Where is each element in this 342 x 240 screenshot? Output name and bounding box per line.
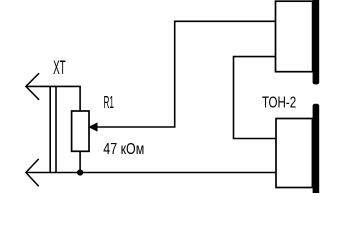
wire: bottom bus from XT pin 2 to BF2 terminal: [26, 172, 277, 174]
resistor R1 body: [72, 111, 89, 151]
wire: XT pin 1 to R1 top lead: [26, 86, 80, 111]
wire: BF1 terminal 2 to BF2 terminal 1: [234, 57, 277, 139]
connector XT contact line 2: [55, 86, 57, 172]
label R1: [104, 92, 115, 112]
headphone capsule BF1 magnet bar: [313, 0, 320, 84]
connector XT pin 1 arrow: [26, 73, 39, 100]
junction node (R1 bottom / bottom bus): [77, 169, 83, 175]
headphone capsule BF2 magnet bar: [313, 104, 320, 197]
headphone capsule BF1 body: [276, 1, 313, 72]
svg-text:XT: XT: [53, 58, 66, 79]
label ТОН-2: [262, 95, 296, 112]
connector XT pin 2 arrow: [26, 159, 39, 186]
headphone capsule BF2 body: [276, 119, 312, 188]
svg-text:R1: R1: [104, 92, 115, 112]
label XT: [53, 58, 66, 79]
R1 wiper arrowhead: [89, 123, 97, 131]
wire: R1 bottom lead: [79, 151, 81, 172]
svg-text:47 кОм: 47 кОм: [103, 141, 144, 158]
connector XT contact line 1: [49, 86, 51, 172]
svg-text:ТОН-2: ТОН-2: [262, 95, 296, 112]
value 47 кОм: [103, 141, 144, 158]
wire: wiper to BF1 terminal 1: [97, 21, 276, 127]
